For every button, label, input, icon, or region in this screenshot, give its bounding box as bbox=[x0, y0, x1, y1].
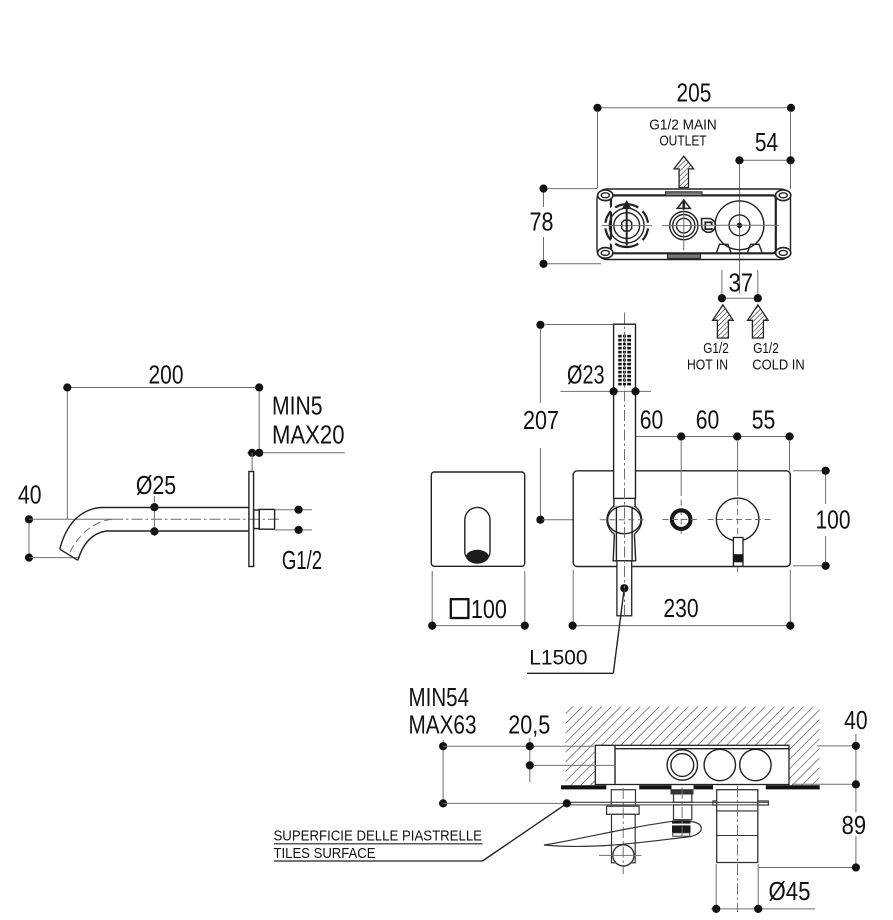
svg-text:TILES SURFACE: TILES SURFACE bbox=[274, 845, 376, 862]
svg-text:Ø23: Ø23 bbox=[567, 360, 605, 390]
svg-text:OUTLET: OUTLET bbox=[659, 133, 706, 150]
svg-text:SUPERFICIE DELLE PIASTRELLE: SUPERFICIE DELLE PIASTRELLE bbox=[274, 828, 483, 845]
svg-text:G1/2: G1/2 bbox=[703, 340, 729, 357]
svg-text:40: 40 bbox=[18, 480, 42, 510]
svg-text:230: 230 bbox=[663, 593, 698, 623]
svg-text:L1500: L1500 bbox=[529, 646, 587, 669]
svg-text:20,5: 20,5 bbox=[508, 710, 550, 740]
svg-text:100: 100 bbox=[816, 505, 851, 535]
svg-text:40: 40 bbox=[844, 705, 868, 735]
svg-text:COLD IN: COLD IN bbox=[752, 357, 804, 374]
svg-text:Ø25: Ø25 bbox=[136, 470, 176, 500]
svg-text:55: 55 bbox=[752, 405, 776, 435]
svg-text:G1/2: G1/2 bbox=[282, 545, 322, 575]
svg-text:205: 205 bbox=[677, 78, 712, 108]
svg-text:100: 100 bbox=[471, 594, 507, 624]
svg-text:G1/2 MAIN: G1/2 MAIN bbox=[649, 117, 717, 134]
svg-text:MAX63: MAX63 bbox=[409, 710, 477, 740]
svg-text:207: 207 bbox=[523, 405, 559, 435]
svg-text:HOT IN: HOT IN bbox=[687, 357, 728, 374]
svg-text:Ø45: Ø45 bbox=[769, 876, 811, 906]
svg-text:37: 37 bbox=[729, 268, 754, 298]
svg-text:MAX20: MAX20 bbox=[272, 420, 345, 450]
svg-text:54: 54 bbox=[755, 127, 778, 157]
svg-text:MIN54: MIN54 bbox=[409, 682, 470, 712]
svg-text:60: 60 bbox=[640, 405, 664, 435]
svg-text:78: 78 bbox=[530, 207, 554, 237]
svg-text:89: 89 bbox=[842, 810, 867, 840]
svg-text:MIN5: MIN5 bbox=[272, 391, 323, 421]
svg-text:60: 60 bbox=[696, 405, 720, 435]
svg-text:G1/2: G1/2 bbox=[753, 340, 779, 357]
svg-text:200: 200 bbox=[149, 360, 184, 390]
